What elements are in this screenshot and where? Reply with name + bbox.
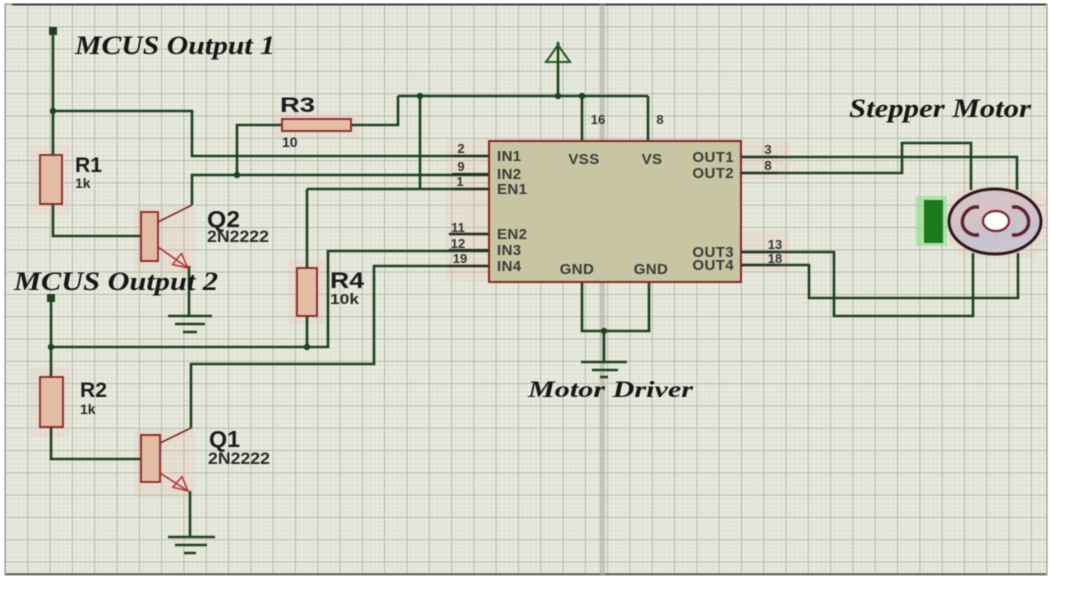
svg-text:GND: GND bbox=[560, 261, 595, 278]
svg-text:VSS: VSS bbox=[568, 151, 599, 168]
svg-text:10k: 10k bbox=[330, 291, 360, 308]
svg-text:Q1: Q1 bbox=[209, 426, 240, 452]
svg-text:GND: GND bbox=[634, 261, 669, 278]
svg-text:1k: 1k bbox=[75, 175, 91, 191]
svg-text:EN2: EN2 bbox=[497, 226, 527, 243]
svg-text:1: 1 bbox=[456, 174, 463, 189]
svg-text:IN1: IN1 bbox=[497, 148, 522, 165]
svg-text:1k: 1k bbox=[80, 401, 96, 417]
svg-text:8: 8 bbox=[656, 112, 663, 127]
svg-text:19: 19 bbox=[453, 251, 467, 266]
svg-text:IN4: IN4 bbox=[497, 258, 522, 275]
svg-text:16: 16 bbox=[591, 112, 605, 127]
svg-text:12: 12 bbox=[451, 236, 465, 251]
svg-text:OUT4: OUT4 bbox=[692, 257, 734, 274]
svg-text:IN3: IN3 bbox=[497, 242, 522, 259]
svg-text:Motor Driver: Motor Driver bbox=[527, 377, 695, 402]
svg-text:2N2222: 2N2222 bbox=[208, 450, 270, 468]
svg-text:3: 3 bbox=[764, 142, 771, 157]
svg-text:MCUS Output 1: MCUS Output 1 bbox=[74, 31, 275, 60]
svg-text:OUT2: OUT2 bbox=[692, 165, 734, 182]
svg-text:VS: VS bbox=[642, 151, 663, 168]
svg-text:9: 9 bbox=[457, 159, 464, 174]
svg-text:11: 11 bbox=[451, 220, 465, 235]
svg-text:Stepper Motor: Stepper Motor bbox=[849, 94, 1032, 123]
svg-text:8: 8 bbox=[764, 158, 771, 173]
svg-text:R1: R1 bbox=[75, 154, 102, 177]
svg-text:R4: R4 bbox=[330, 268, 365, 293]
svg-text:EN1: EN1 bbox=[497, 181, 527, 198]
svg-text:13: 13 bbox=[768, 237, 782, 252]
svg-text:OUT1: OUT1 bbox=[692, 149, 734, 166]
svg-text:18: 18 bbox=[768, 251, 782, 266]
svg-text:2: 2 bbox=[457, 141, 464, 156]
svg-text:MCUS Output 2: MCUS Output 2 bbox=[13, 267, 218, 296]
svg-text:2N2222: 2N2222 bbox=[207, 228, 269, 246]
svg-text:R3: R3 bbox=[280, 94, 315, 117]
svg-text:10: 10 bbox=[282, 134, 298, 150]
svg-text:R2: R2 bbox=[80, 379, 107, 402]
